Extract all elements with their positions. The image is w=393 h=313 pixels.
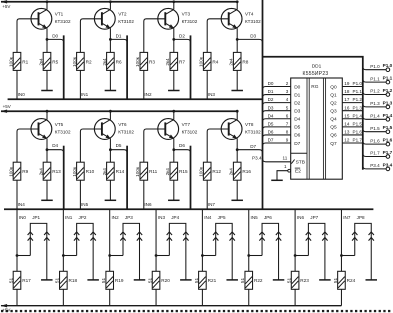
svg-text:D2: D2 [294,100,300,106]
svg-text:IN3: IN3 [208,92,216,97]
svg-text:IN0: IN0 [19,215,27,220]
svg-text:P1.0: P1.0 [383,63,393,68]
resistor R15 [165,150,188,201]
ground under R13 [41,199,53,201]
connector JP7 [306,215,328,280]
node terminal P1.6 [383,138,393,146]
svg-text:P3.4: P3.4 [383,162,393,167]
node D6 junction [172,148,175,151]
pin name Q7 [330,141,337,147]
wire terminal P1.6 [363,138,386,144]
wire JP7 pin to IN6 [294,254,309,257]
svg-text:R4: R4 [212,59,218,64]
ground under R16 [231,199,243,201]
node D2 junction [172,38,175,41]
svg-text:R22: R22 [254,278,263,283]
transistor VT5 [31,110,71,150]
wire IN0 line [17,209,26,271]
svg-text:D3: D3 [268,105,274,110]
pin E2 inversion circle [288,169,291,172]
ground under R8 [231,90,243,92]
pin name Q6 [330,133,337,139]
svg-text:D4: D4 [52,143,58,148]
svg-text:Q7: Q7 [330,141,337,147]
node D1 junction [109,38,112,41]
resistor R14 [102,150,125,201]
wire terminal P1.0 [363,64,386,70]
wire IN3 line [156,209,165,271]
resistor R6 [102,39,122,90]
svg-text:R24: R24 [347,278,356,283]
svg-text:VT7: VT7 [182,122,191,127]
ground at JP6 [273,279,285,281]
svg-text:D3: D3 [294,109,300,115]
svg-text:P1.4: P1.4 [370,114,380,119]
transistor VT2 [94,0,134,39]
svg-text:17: 17 [344,97,350,102]
ground at JP3 [134,279,146,281]
svg-text:13: 13 [344,130,350,135]
wire D5 [110,143,127,153]
wire IN1 to bundle [80,70,88,99]
wire D3 [237,34,262,43]
svg-text:D5: D5 [268,121,274,126]
svg-text:P1.4: P1.4 [353,113,363,118]
transistor VT7 [158,110,198,150]
svg-text:P3.4: P3.4 [252,156,262,161]
svg-text:D4: D4 [268,113,274,118]
svg-text:D3: D3 [250,34,256,39]
ground under R15 [168,199,180,201]
node terminal P3.4 [383,162,393,170]
transistor VT4 [221,0,261,39]
svg-text:2к4: 2к4 [102,58,107,66]
svg-text:JP1: JP1 [32,215,40,220]
svg-text:VT6: VT6 [118,122,127,127]
ground at JP7 [319,279,331,281]
svg-text:1: 1 [284,164,287,169]
ground at JP5 [226,279,238,281]
svg-text:КТ3102: КТ3102 [182,19,198,24]
resistor R3 [135,52,155,70]
svg-text:R9: R9 [22,169,28,174]
svg-text:11: 11 [283,156,288,161]
wire IN6 to bundle [144,180,152,209]
svg-text:R1: R1 [22,59,28,64]
svg-text:P1.2: P1.2 [353,97,363,102]
resistor R13 [38,150,61,201]
ground under R6 [105,90,117,92]
svg-text:JP4: JP4 [171,215,179,220]
svg-text:D1: D1 [268,89,274,94]
resistor R12 [199,162,222,180]
svg-text:VT5: VT5 [55,122,64,127]
svg-text:15: 15 [344,113,350,118]
node terminal P1.3 [383,100,393,108]
wire IN2 line [110,209,119,271]
connector JP3 [120,215,142,280]
resistor R18 [55,271,78,289]
wire top link to right bundle [263,57,363,170]
wire IN7 to bundle [207,180,215,209]
resistor R23 [287,271,310,289]
svg-text:100к: 100к [72,56,77,67]
svg-text:D0: D0 [294,84,300,90]
wire IN5 line [249,209,258,271]
svg-text:2: 2 [286,81,289,86]
op-amp U1 — IC DD1 К555ИР23 register box [291,63,343,179]
wire base VT6 [80,129,102,162]
transistor VT3 [158,0,198,39]
pin name D0 [294,84,300,90]
svg-text:R5: R5 [52,59,58,64]
svg-text:VT2: VT2 [118,12,127,17]
svg-text:D5: D5 [116,143,122,148]
svg-text:51: 51 [55,277,60,283]
svg-text:2к4: 2к4 [165,58,170,66]
resistor R4 [199,52,219,70]
svg-text:VT3: VT3 [182,12,191,17]
wire IN4 to bundle [17,180,25,209]
connector JP2 [74,215,96,280]
svg-text:4: 4 [286,97,289,102]
svg-text:D0: D0 [268,81,274,86]
svg-text:2к4: 2к4 [229,168,234,176]
svg-text:IN3: IN3 [158,215,166,220]
wire +5V bus row2 [1,104,237,113]
svg-text:Q3: Q3 [330,109,337,115]
wire IN1 line [63,209,72,271]
svg-text:R11: R11 [149,169,158,174]
wire R17 to 0V bus [16,289,18,305]
svg-text:P1.3: P1.3 [383,100,393,105]
wire 0V bus bottom [1,304,342,313]
svg-text:P1.0: P1.0 [353,81,363,86]
wire D5 to pin 7 [263,121,291,129]
wire JP6 pin to IN5 [247,254,262,257]
svg-text:100к: 100к [135,166,140,177]
svg-text:R17: R17 [22,278,31,283]
node terminal P1.2 [383,88,393,96]
ground under R5 [41,90,53,92]
svg-text:R16: R16 [242,169,251,174]
node terminal P1.4 [383,113,393,121]
wire D0 to pin 2 [263,81,291,89]
wire base VT2 [80,19,102,53]
pin name Q0 [330,84,337,90]
ground under R7 [168,90,180,92]
svg-text:R8: R8 [242,59,248,64]
resistor R21 [194,271,217,289]
svg-text:JP3: JP3 [125,215,133,220]
wire R23 to 0V bus [294,289,296,305]
svg-text:P1.6: P1.6 [383,138,393,143]
wire IN7 line [341,209,350,271]
svg-text:Q6: Q6 [330,133,337,139]
svg-text:2к4: 2к4 [38,58,43,66]
wire bundle vertical D0 [63,35,65,99]
svg-text:Q4: Q4 [330,117,337,123]
svg-text:18: 18 [344,89,350,94]
pin name D1 [294,92,300,98]
wire R22 to 0V bus [248,289,250,305]
svg-text:R13: R13 [52,169,61,174]
svg-text:D2: D2 [268,97,274,102]
node terminal P1.1 [383,76,393,84]
svg-text:7: 7 [286,121,289,126]
svg-text:P1.3: P1.3 [370,101,380,106]
wire terminal P3.4 [363,163,386,169]
connector JP5 [213,215,235,280]
svg-text:КТ3102: КТ3102 [55,129,71,134]
pin name D4 [294,117,300,123]
resistor R1 [8,52,28,70]
wire Q6 pin 13 to bundle [342,130,363,135]
wire IN6 line [295,209,304,271]
svg-text:51: 51 [287,277,292,283]
connector JP1 [28,215,50,280]
pin name Q2 [330,100,337,106]
svg-text:P1.4: P1.4 [383,113,393,118]
svg-text:R10: R10 [86,169,95,174]
svg-text:D4: D4 [294,117,300,123]
svg-text:14: 14 [344,121,350,126]
svg-text:2к4: 2к4 [229,58,234,66]
wire base VT3 [144,19,166,53]
svg-text:100к: 100к [8,166,13,177]
svg-text:Q0: Q0 [330,84,337,90]
node D7 junction [236,148,239,151]
connector JP8 [352,215,374,280]
svg-text:IN2: IN2 [112,215,120,220]
svg-text:2к4: 2к4 [165,168,170,176]
svg-text:VT8: VT8 [245,122,254,127]
pin name D2 [294,100,300,106]
wire R21 to 0V bus [201,289,203,305]
svg-text:2к4: 2к4 [38,168,43,176]
svg-text:JP6: JP6 [264,215,272,220]
svg-text:JP2: JP2 [79,215,87,220]
svg-text:КТ3102: КТ3102 [118,129,134,134]
wire IN3 to bundle [207,70,215,99]
svg-text:E2: E2 [295,169,301,175]
svg-text:P1.3: P1.3 [353,105,363,110]
wire JP4 pin to IN3 [155,254,170,257]
svg-text:IN7: IN7 [208,202,216,207]
svg-text:D2: D2 [179,34,185,39]
wire terminal P1.7 [363,151,386,157]
wire base VT5 [17,129,39,162]
svg-text:16: 16 [344,105,350,110]
wire base VT4 [207,19,229,53]
svg-text:9: 9 [286,138,289,143]
resistor R24 [333,271,356,289]
wire left bundle vertical [262,0,264,209]
wire IN2 to bundle [144,70,152,99]
svg-text:P1.7: P1.7 [353,138,363,143]
svg-text:VT1: VT1 [55,12,64,17]
pin name Q3 [330,109,337,115]
svg-text:D1: D1 [294,92,300,98]
pin name E2 [295,168,301,174]
wire D7 [237,144,262,153]
svg-text:P1.1: P1.1 [383,76,393,81]
svg-text:IN5: IN5 [81,202,89,207]
svg-text:RG: RG [311,84,318,90]
svg-text:6: 6 [286,113,289,118]
svg-text:R12: R12 [212,169,221,174]
svg-text:+5V: +5V [3,104,11,109]
wire JP3 pin to IN2 [108,254,123,257]
svg-text:P1.6: P1.6 [370,138,380,143]
svg-text:2к4: 2к4 [102,168,107,176]
wire Q1 pin 18 to bundle [342,89,363,94]
svg-text:P1.1: P1.1 [370,76,380,81]
svg-text:51: 51 [147,277,152,283]
pin name D6 [294,133,300,139]
svg-text:IN1: IN1 [81,92,89,97]
svg-text:12: 12 [344,138,350,143]
svg-text:КТ3102: КТ3102 [182,129,198,134]
svg-text:51: 51 [194,277,199,283]
ground at JP4 [180,279,192,281]
wire base VT8 [207,129,229,162]
svg-text:IN5: IN5 [251,215,259,220]
resistor R19 [101,271,124,289]
svg-text:P1.7: P1.7 [383,150,393,155]
svg-text:19: 19 [344,81,350,86]
ground at JP8 [366,279,378,281]
wire +5V bus row1 [1,0,237,9]
resistor R17 [8,271,31,289]
wire bottom bundle [4,208,373,210]
wire IN4 line [202,209,211,271]
wire E2 pin 1 to ground [277,164,288,180]
svg-text:R15: R15 [179,169,188,174]
svg-text:R21: R21 [208,278,217,283]
wire JP5 pin to IN4 [201,254,216,257]
pin name Q4 [330,117,337,123]
resistor R16 [229,150,252,201]
resistor R22 [240,271,263,289]
ground under R14 [105,199,117,201]
wire bundle vertical D1 [126,35,128,99]
wire base VT7 [144,129,166,162]
svg-text:P1.5: P1.5 [383,125,393,130]
wire Q2 pin 17 to bundle [342,97,363,102]
svg-text:100к: 100к [8,56,13,67]
svg-text:P1.5: P1.5 [353,121,363,126]
svg-text:51: 51 [101,277,106,283]
svg-text:КТ3102: КТ3102 [118,19,134,24]
wire D1 [110,34,127,43]
svg-text:P1.2: P1.2 [370,89,380,94]
wire JP2 pin to IN1 [62,254,77,257]
svg-text:IN1: IN1 [65,215,73,220]
svg-text:R18: R18 [69,278,78,283]
wire JP8 pin to IN7 [340,254,355,257]
resistor R5 [38,39,58,90]
svg-text:D7: D7 [294,141,300,147]
svg-text:100к: 100к [199,56,204,67]
svg-text:IN4: IN4 [18,202,26,207]
svg-text:JP5: JP5 [218,215,226,220]
wire R20 to 0V bus [155,289,157,305]
svg-text:P1.0: P1.0 [370,64,380,69]
wire base VT1 [17,19,39,53]
svg-text:IN6: IN6 [297,215,305,220]
wire Q3 pin 16 to bundle [342,105,363,110]
wire bundle vertical D5 [126,146,128,210]
resistor R2 [72,52,92,70]
svg-text:100к: 100к [135,56,140,67]
svg-text:Q5: Q5 [330,125,337,131]
wire D1 to pin 3 [263,89,291,97]
wire Q0 pin 19 to bundle [342,81,363,86]
svg-text:Q2: Q2 [330,100,337,106]
svg-text:IN6: IN6 [144,202,152,207]
wire IN bundle row1 [8,98,263,100]
wire terminal P1.1 [363,76,386,82]
resistor R11 [135,162,157,180]
svg-text:DD1: DD1 [312,63,322,69]
svg-text:R6: R6 [116,59,122,64]
wire bundle vertical D6 [190,146,192,210]
connector JP6 [259,215,281,280]
wire D3 to pin 5 [263,105,291,113]
ground at E2 [271,179,283,181]
pin name D3 [294,109,300,115]
wire terminal P1.2 [363,89,386,95]
transistor VT8 [221,110,261,150]
wire D6 to pin 8 [263,130,291,138]
wire D2 to pin 4 [263,97,291,105]
node D5 junction [109,148,112,151]
svg-text:100к: 100к [72,166,77,177]
wire bundle vertical D2 [190,35,192,99]
wire IN0 to bundle [17,70,25,99]
resistor R10 [72,162,95,180]
wire terminal P1.3 [363,101,386,107]
resistor R9 [8,162,28,180]
svg-text:IN2: IN2 [144,92,152,97]
node D4 junction [46,148,49,151]
svg-text:51: 51 [333,277,338,283]
svg-text:D6: D6 [268,130,274,135]
svg-text:КТ3102: КТ3102 [245,129,261,134]
wire Q7 pin 12 to bundle [342,138,363,143]
svg-text:IN7: IN7 [343,215,351,220]
wire P3.4 to STB pin 11 [252,156,291,162]
bottom dotted continuation edge [1,310,390,312]
wire R18 to 0V bus [62,289,64,305]
pin name Q5 [330,125,337,131]
svg-text:R23: R23 [300,278,309,283]
pin STB dynamic mark [291,160,305,166]
svg-text:P1.5: P1.5 [370,126,380,131]
wire D7 to pin 9 [263,138,291,146]
svg-text:8: 8 [286,130,289,135]
svg-text:VT4: VT4 [245,12,254,17]
svg-text:D7: D7 [250,144,256,149]
wire D4 [47,143,64,153]
wire IN5 to bundle [80,180,88,209]
connector JP4 [167,215,189,280]
svg-text:IN4: IN4 [204,215,212,220]
svg-text:R20: R20 [161,278,170,283]
wire D0 [47,34,64,43]
wire terminal P1.5 [363,126,386,132]
